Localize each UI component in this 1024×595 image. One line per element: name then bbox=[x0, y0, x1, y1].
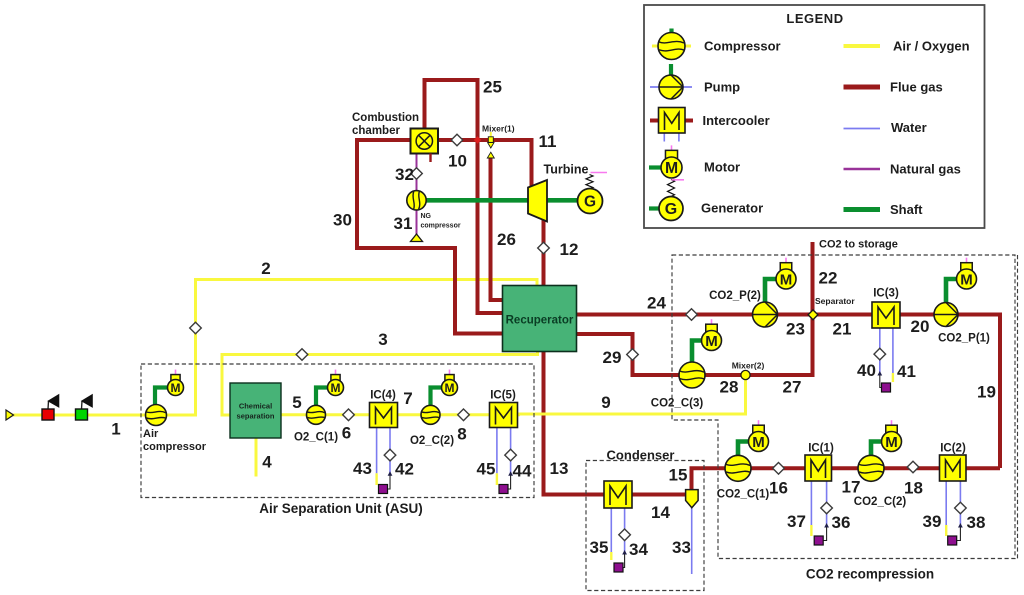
water drain lines condenser streams 34 35 bbox=[611, 508, 630, 572]
node diamond 6 bbox=[343, 409, 355, 421]
label stream number 30 bbox=[333, 211, 352, 230]
shaft NG compressor to turbine to generator bbox=[424, 198, 578, 203]
svg-text:11: 11 bbox=[539, 132, 557, 151]
label stream number 45 bbox=[477, 460, 496, 479]
svg-text:22: 22 bbox=[819, 269, 838, 288]
label stream number 31 bbox=[394, 214, 413, 233]
svg-text:Compressor: Compressor bbox=[704, 39, 781, 54]
legend box frame bbox=[644, 5, 985, 228]
label CO2_P(1) bbox=[938, 333, 990, 345]
legend label Flue gas bbox=[890, 80, 943, 95]
label O2_C(2) bbox=[410, 435, 454, 447]
svg-text:M: M bbox=[705, 333, 718, 350]
separator node bbox=[808, 310, 818, 320]
label stream number 21 bbox=[833, 320, 852, 339]
label stream number 40 bbox=[857, 361, 876, 380]
label stream number 42 bbox=[395, 460, 414, 479]
svg-text:30: 30 bbox=[333, 211, 352, 230]
wire stream 13 recuperator to condenser bbox=[544, 351, 606, 495]
svg-text:12: 12 bbox=[560, 240, 579, 259]
svg-text:CO2 to storage: CO2 to storage bbox=[819, 239, 898, 251]
svg-text:Air Separation Unit (ASU): Air Separation Unit (ASU) bbox=[259, 501, 423, 516]
svg-text:NG: NG bbox=[421, 213, 432, 220]
svg-text:41: 41 bbox=[897, 362, 916, 381]
svg-text:5: 5 bbox=[292, 393, 301, 412]
label stream number 23 bbox=[786, 320, 805, 339]
svg-text:CO2_C(2): CO2_C(2) bbox=[854, 496, 907, 508]
svg-text:M: M bbox=[331, 381, 341, 395]
label CO2_C(1) compressor bbox=[717, 489, 770, 501]
svg-text:Intercooler: Intercooler bbox=[703, 113, 770, 128]
wire stream 16 17 18 recompression line bbox=[750, 466, 1000, 470]
legend label Generator bbox=[701, 201, 763, 216]
label stream number 41 bbox=[897, 362, 916, 381]
svg-text:19: 19 bbox=[977, 383, 996, 402]
svg-text:LEGEND: LEGEND bbox=[786, 11, 843, 26]
legend label Motor bbox=[704, 160, 740, 175]
shaft CO2_P1 motor bbox=[946, 279, 957, 303]
wire stream 9 oxygen to mixer2 bbox=[514, 377, 747, 415]
legend label Intercooler bbox=[703, 113, 770, 128]
shaft CO2_P2 motor bbox=[765, 279, 777, 303]
label stream number 34 bbox=[629, 540, 648, 559]
svg-text:8: 8 bbox=[457, 425, 466, 444]
label CO2_C(3) bbox=[651, 398, 704, 410]
label stream number 9 bbox=[601, 393, 610, 412]
label stream number 29 bbox=[603, 348, 622, 367]
water drain lines IC3 streams 40 41 bbox=[874, 328, 893, 392]
svg-text:10: 10 bbox=[448, 152, 467, 171]
svg-text:13: 13 bbox=[550, 459, 569, 478]
label stream number 37 bbox=[787, 512, 806, 531]
svg-text:O2_C(2): O2_C(2) bbox=[410, 435, 454, 447]
svg-text:Mixer(1): Mixer(1) bbox=[482, 124, 515, 134]
svg-text:43: 43 bbox=[353, 459, 372, 478]
intercooler IC(5) bbox=[490, 403, 518, 428]
intercooler condenser heat exchanger bbox=[604, 481, 632, 508]
legend compressor symbol bbox=[652, 29, 691, 60]
legend water line bbox=[844, 128, 881, 130]
legend pump symbol bbox=[650, 64, 692, 99]
label stream number 16 bbox=[769, 479, 788, 498]
svg-text:7: 7 bbox=[403, 389, 412, 408]
motor of air compressor bbox=[168, 370, 184, 396]
node diamond 32 bbox=[411, 168, 423, 180]
label stream number 10 bbox=[448, 152, 467, 171]
svg-text:M: M bbox=[752, 434, 765, 451]
boundary Air Separation Unit dashed box bbox=[141, 364, 534, 498]
wire stream 2 air line compressor to recuperator bbox=[165, 278, 537, 415]
label stream number 11 bbox=[539, 132, 557, 151]
water drain lines IC5 streams 44 45 bbox=[497, 427, 517, 494]
legend shaft line bbox=[844, 207, 881, 212]
svg-text:IC(3): IC(3) bbox=[873, 288, 899, 300]
motor of O2_C2 bbox=[442, 370, 458, 396]
label Mixer(2) bbox=[732, 361, 765, 371]
node diamond on stream 3 bbox=[296, 349, 308, 361]
svg-text:21: 21 bbox=[833, 320, 852, 339]
svg-text:44: 44 bbox=[513, 462, 532, 481]
label Mixer(1) bbox=[482, 124, 515, 134]
label stream number 13 bbox=[550, 459, 569, 478]
svg-text:1: 1 bbox=[111, 420, 120, 439]
label stream number 7 bbox=[403, 389, 412, 408]
label Turbine bbox=[544, 163, 589, 177]
motor of CO2_C3 bbox=[702, 319, 722, 350]
node diamond 10 bbox=[451, 134, 463, 146]
label stream number 1 bbox=[111, 420, 120, 439]
label stream number 24 bbox=[647, 294, 666, 313]
wire stream 19 vertical bbox=[998, 313, 1002, 469]
shaft air compressor motor bbox=[155, 388, 168, 407]
label CO2 to storage bbox=[819, 239, 898, 251]
legend flue gas line bbox=[844, 85, 881, 90]
pump CO2_P(1) bbox=[934, 303, 958, 327]
legend generator symbol bbox=[649, 180, 684, 221]
label stream number 12 bbox=[560, 240, 579, 259]
svg-text:compressor: compressor bbox=[143, 441, 207, 453]
label Air Separation Unit (ASU) bbox=[259, 501, 423, 516]
svg-text:CO2_C(3): CO2_C(3) bbox=[651, 398, 704, 410]
motor of CO2_C2 bbox=[882, 420, 902, 451]
intercooler IC(4) bbox=[370, 403, 398, 428]
svg-text:M: M bbox=[885, 434, 898, 451]
svg-text:40: 40 bbox=[857, 361, 876, 380]
svg-text:25: 25 bbox=[483, 78, 502, 97]
svg-text:Separator: Separator bbox=[815, 296, 855, 306]
svg-text:3: 3 bbox=[378, 330, 387, 349]
label stream number 14 bbox=[651, 503, 670, 522]
svg-text:42: 42 bbox=[395, 460, 414, 479]
node NG inlet triangle bbox=[411, 234, 423, 242]
svg-text:31: 31 bbox=[394, 214, 413, 233]
node diamond 12 bbox=[538, 242, 550, 254]
svg-text:Combustion: Combustion bbox=[352, 112, 419, 124]
wire stream 26 mixer1 down to recuperator bbox=[491, 156, 504, 300]
label Combustion chamber bbox=[352, 112, 419, 137]
legend air oxygen line bbox=[844, 44, 881, 48]
node diamond on stream 2 bbox=[190, 322, 202, 334]
svg-text:35: 35 bbox=[590, 538, 609, 557]
compressor CO2_C(3) bbox=[679, 362, 705, 388]
svg-text:15: 15 bbox=[669, 466, 688, 485]
label CO2_C(2) compressor bbox=[854, 496, 907, 508]
svg-text:9: 9 bbox=[601, 393, 610, 412]
label stream number 38 bbox=[967, 513, 986, 532]
label stream number 19 bbox=[977, 383, 996, 402]
boundary CO2 recompression dashed polygon bbox=[672, 255, 1018, 559]
svg-text:IC(2): IC(2) bbox=[940, 443, 966, 455]
svg-text:Water: Water bbox=[891, 120, 927, 135]
label stream number 5 bbox=[292, 393, 301, 412]
svg-text:36: 36 bbox=[832, 513, 851, 532]
legend intercooler symbol bbox=[650, 108, 693, 142]
generator of turbine bbox=[578, 173, 608, 214]
node air inlet arrow bbox=[6, 410, 14, 420]
svg-text:Pump: Pump bbox=[704, 80, 740, 95]
water drain lines IC4 streams 42 43 bbox=[377, 427, 396, 494]
svg-text:39: 39 bbox=[923, 512, 942, 531]
svg-text:M: M bbox=[665, 160, 678, 177]
boundary Condenser dashed box bbox=[586, 461, 704, 591]
motor of CO2_P2 bbox=[776, 258, 796, 289]
label NG compressor bbox=[421, 213, 461, 230]
label CO2 recompression bbox=[806, 567, 934, 582]
wire stream 30 combustion chamber to recuperator bbox=[357, 140, 503, 334]
label Air compressor bbox=[143, 428, 207, 453]
legend label Shaft bbox=[890, 202, 923, 217]
label stream number 3 bbox=[378, 330, 387, 349]
shaft CO2_C2 motor bbox=[871, 442, 882, 457]
shaft CO2_C3 motor bbox=[692, 341, 702, 364]
svg-text:2: 2 bbox=[261, 259, 270, 278]
svg-text:18: 18 bbox=[904, 479, 923, 498]
svg-text:6: 6 bbox=[342, 424, 351, 443]
svg-text:CO2 recompression: CO2 recompression bbox=[806, 567, 934, 582]
legend label Air / Oxygen bbox=[893, 39, 970, 54]
node diamond 16 bbox=[773, 463, 785, 475]
svg-text:Shaft: Shaft bbox=[890, 202, 923, 217]
label stream number 18 bbox=[904, 479, 923, 498]
compressor O2_C(2) bbox=[421, 405, 440, 424]
water drain lines IC2 streams 38 39 bbox=[946, 481, 966, 545]
label IC(2) bbox=[940, 443, 966, 455]
svg-text:16: 16 bbox=[769, 479, 788, 498]
svg-text:Air: Air bbox=[143, 428, 159, 440]
legend natural gas line bbox=[844, 168, 881, 171]
svg-text:17: 17 bbox=[842, 478, 861, 497]
node diamond 18 bbox=[907, 461, 919, 473]
svg-text:compressor: compressor bbox=[421, 223, 461, 230]
intercooler IC(3) bbox=[872, 302, 900, 328]
legend label Water bbox=[891, 120, 927, 135]
svg-text:14: 14 bbox=[651, 503, 670, 522]
svg-text:M: M bbox=[960, 271, 973, 288]
wire main line combustion chamber to mixer1 and stream 11 to turbine bbox=[437, 140, 532, 187]
svg-text:32: 32 bbox=[395, 165, 414, 184]
svg-text:M: M bbox=[780, 271, 793, 288]
svg-text:29: 29 bbox=[603, 348, 622, 367]
label stream number 43 bbox=[353, 459, 372, 478]
label stream number 33 bbox=[672, 538, 691, 557]
mixer Mixer(1) symbol bbox=[487, 132, 494, 158]
svg-text:Turbine: Turbine bbox=[544, 163, 589, 177]
svg-text:O2_C(1): O2_C(1) bbox=[294, 432, 338, 444]
legend label Natural gas bbox=[890, 162, 961, 177]
label stream number 6 bbox=[342, 424, 351, 443]
label stream number 39 bbox=[923, 512, 942, 531]
svg-text:Condenser: Condenser bbox=[607, 448, 675, 463]
shaft O2_C1 motor bbox=[316, 388, 328, 408]
wire stream 29 recuperator to CO2_C3 bbox=[576, 334, 679, 375]
svg-text:separation: separation bbox=[237, 412, 275, 421]
label IC(1) bbox=[808, 443, 834, 455]
flash separator pentagon in condenser bbox=[686, 490, 699, 508]
svg-text:Motor: Motor bbox=[704, 160, 740, 175]
mixer Mixer(2) node bbox=[741, 370, 750, 379]
motor of O2_C1 bbox=[328, 370, 344, 396]
wire stream 1 air inlet line bbox=[10, 414, 156, 417]
label stream number 4 bbox=[262, 453, 272, 472]
label stream number 17 bbox=[842, 478, 861, 497]
node diamond on stream 24 bbox=[686, 309, 698, 321]
svg-text:chamber: chamber bbox=[352, 125, 400, 137]
turbine bbox=[528, 180, 547, 222]
wire stream 3 recuperator to chemical separation bbox=[221, 351, 540, 416]
node junction stream 25 crossing bbox=[474, 136, 481, 143]
svg-text:CO2_P(1): CO2_P(1) bbox=[938, 333, 990, 345]
legend label Compressor bbox=[704, 39, 781, 54]
svg-text:Generator: Generator bbox=[701, 201, 763, 216]
compressor O2_C(1) bbox=[307, 405, 326, 424]
wire stream 4 chemical separation bottom outlet bbox=[255, 438, 258, 477]
svg-text:28: 28 bbox=[720, 378, 739, 397]
wire natural gas line to combustion chamber bbox=[416, 153, 418, 236]
svg-text:G: G bbox=[584, 194, 596, 211]
node inlet flag red bbox=[42, 395, 59, 420]
intercooler IC(1) bbox=[805, 455, 832, 481]
label stream number 28 bbox=[720, 378, 739, 397]
compressor Air compressor bbox=[146, 405, 167, 426]
svg-text:20: 20 bbox=[911, 317, 930, 336]
label stream number 36 bbox=[832, 513, 851, 532]
svg-text:26: 26 bbox=[497, 230, 516, 249]
label stream number 2 bbox=[261, 259, 270, 278]
label CO2_P(2) bbox=[709, 290, 761, 302]
svg-text:M: M bbox=[171, 381, 181, 395]
label Separator bbox=[815, 296, 855, 306]
compressor NG compressor bbox=[407, 191, 426, 210]
label stream number 35 bbox=[590, 538, 609, 557]
label O2_C(1) bbox=[294, 432, 338, 444]
shaft O2_C2 motor bbox=[431, 388, 443, 408]
label IC(4) bbox=[370, 390, 396, 402]
svg-text:Chemical: Chemical bbox=[239, 402, 272, 411]
svg-text:M: M bbox=[445, 381, 455, 395]
wire stream 15 flash to CO2_C1 bbox=[692, 468, 727, 490]
svg-text:45: 45 bbox=[477, 460, 496, 479]
motor of CO2_C1 bbox=[749, 420, 769, 451]
svg-text:Recuperator: Recuperator bbox=[506, 315, 574, 327]
wire stream 27 28 mixer2 line bbox=[705, 373, 815, 377]
wire stream 14 condenser to flash bbox=[631, 493, 686, 497]
svg-text:24: 24 bbox=[647, 294, 666, 313]
svg-text:CO2_P(2): CO2_P(2) bbox=[709, 290, 761, 302]
svg-text:IC(5): IC(5) bbox=[490, 390, 516, 402]
svg-text:Flue gas: Flue gas bbox=[890, 80, 943, 95]
label stream number 8 bbox=[457, 425, 466, 444]
svg-text:Natural gas: Natural gas bbox=[890, 162, 961, 177]
svg-text:27: 27 bbox=[783, 378, 802, 397]
compressor CO2_C(1) bbox=[725, 455, 751, 481]
wire CO2 to storage vertical and separator leg bbox=[811, 242, 815, 377]
svg-text:4: 4 bbox=[262, 453, 272, 472]
recuperator box bbox=[503, 286, 577, 352]
water line stream 33 from flash bbox=[691, 508, 693, 574]
wire stream 12 turbine to recuperator bbox=[542, 219, 546, 286]
label stream number 25 bbox=[483, 78, 502, 97]
svg-text:33: 33 bbox=[672, 538, 691, 557]
label stream number 26 bbox=[497, 230, 516, 249]
label stream number 22 bbox=[819, 269, 838, 288]
svg-text:34: 34 bbox=[629, 540, 648, 559]
node inlet flag green bbox=[76, 395, 93, 420]
node diamond 29 bbox=[627, 349, 639, 361]
svg-text:38: 38 bbox=[967, 513, 986, 532]
svg-text:G: G bbox=[665, 201, 677, 218]
node diamond 8 bbox=[458, 409, 470, 421]
chemical separation box bbox=[230, 383, 281, 438]
water drain lines IC1 streams 36 37 bbox=[811, 481, 832, 545]
label stream number 27 bbox=[783, 378, 802, 397]
label Condenser bbox=[607, 448, 675, 463]
pump CO2_P(2) bbox=[753, 302, 778, 327]
svg-text:Air / Oxygen: Air / Oxygen bbox=[893, 39, 970, 54]
intercooler IC(2) bbox=[940, 455, 967, 481]
shaft CO2_C1 motor bbox=[738, 442, 749, 457]
label stream number 44 bbox=[513, 462, 532, 481]
compressor CO2_C(2) bbox=[858, 455, 884, 481]
label IC(3) bbox=[873, 288, 899, 300]
svg-text:IC(4): IC(4) bbox=[370, 390, 396, 402]
motor of CO2_P1 bbox=[957, 258, 977, 289]
combustion chamber box bbox=[411, 129, 439, 163]
svg-text:23: 23 bbox=[786, 320, 805, 339]
label stream number 32 bbox=[395, 165, 414, 184]
svg-text:37: 37 bbox=[787, 512, 806, 531]
label stream number 15 bbox=[669, 466, 688, 485]
label stream number 20 bbox=[911, 317, 930, 336]
label IC(5) bbox=[490, 390, 516, 402]
legend motor symbol bbox=[649, 145, 682, 178]
legend label Pump bbox=[704, 80, 740, 95]
wire stream 24 20 21 recuperator to CO2 pumps line bbox=[576, 313, 1000, 317]
wire stream 25 combustion chamber top loop to recuperator bbox=[425, 80, 504, 313]
svg-text:IC(1): IC(1) bbox=[808, 443, 834, 455]
svg-text:Mixer(2): Mixer(2) bbox=[732, 361, 765, 371]
wire stream 5-8 oxygen line through ASU bbox=[281, 413, 520, 416]
svg-text:CO2_C(1): CO2_C(1) bbox=[717, 489, 770, 501]
legend title LEGEND bbox=[786, 11, 843, 26]
